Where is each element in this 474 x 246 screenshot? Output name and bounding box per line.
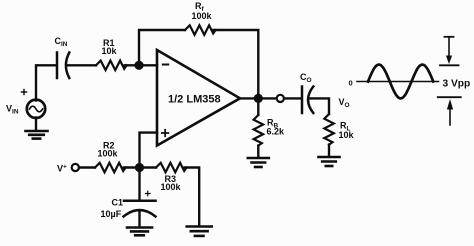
ground under RL [319,157,340,166]
capacitor CO [302,87,313,114]
capacitor CIN [57,53,69,79]
wire c1-down [138,211,140,228]
wire rl-down [328,145,330,157]
wire noninv-input [140,133,158,168]
node output [254,94,263,103]
pin plus [162,130,169,137]
svg-text:10µF: 10µF [101,209,122,219]
annotation bottom arrow [447,99,453,110]
svg-text:1/2 LM358: 1/2 LM358 [168,94,221,106]
terminal output [277,95,284,102]
svg-text:6.2k: 6.2k [267,127,286,137]
svg-text:100k: 100k [192,11,213,21]
capacitor C1 [124,201,156,217]
svg-text:0: 0 [349,79,353,88]
svg-text:C1: C1 [112,197,124,207]
wire r1-to-opamp [125,64,157,66]
terminal V+ [72,164,79,171]
wire to Co [284,97,300,99]
wire co-to-rl [310,98,330,114]
source VIN [27,100,45,118]
wire feedback-left [139,30,185,65]
wire r3-to-ground [185,168,200,227]
wire vplus-to-r2 [79,166,95,168]
resistor Rf [185,25,216,35]
wire feedback-right [212,30,258,94]
op-amp U1 [157,50,240,146]
ground under VIN [26,131,48,139]
wire rb-down [257,146,259,158]
wire vin-down [35,118,37,131]
annotation top arrow [448,37,450,56]
wire output [240,97,276,99]
annotation bottom bar [438,96,461,98]
node A [134,61,143,70]
waveform sine [368,65,433,99]
wire c1-stem [138,168,140,200]
wire r2-to-node [124,166,156,168]
label VIN plus [22,90,27,95]
resistor R3 [156,163,187,173]
svg-text:3 Vpp: 3 Vpp [443,79,471,90]
svg-text:10k: 10k [339,130,355,140]
ground under R3 [187,227,212,236]
resistor RL [324,114,334,145]
waveform axis [357,81,439,83]
ground under C1 [127,228,152,236]
node B [135,163,144,172]
label C1 plus [146,191,151,196]
wire rb-stem [257,98,259,115]
svg-text:100k: 100k [161,182,182,192]
pin minus [163,64,168,66]
ground under RB [248,158,269,167]
annotation 3Vpp top tick [445,36,454,38]
wire cin-to-r1 [67,64,97,66]
svg-text:10k: 10k [102,46,118,56]
resistor R2 [95,163,126,173]
annotation top bar [440,64,459,66]
resistor RB [254,115,264,146]
svg-text:100k: 100k [98,148,119,158]
resistor R1 [96,61,127,71]
wire vin-up-to-cin [36,65,56,100]
